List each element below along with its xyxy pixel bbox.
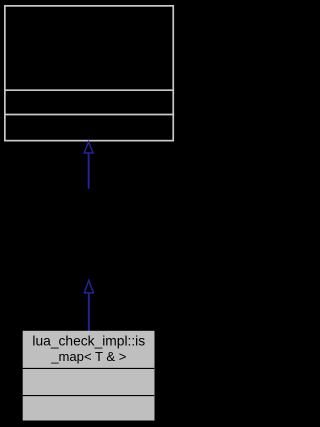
inheritance arrow shaft 2 xyxy=(88,294,90,331)
inheritance arrow head 2 (hollow triangle at intermediate class) xyxy=(84,280,93,293)
svg-text:lua_check_impl::is: lua_check_impl::is xyxy=(32,333,145,348)
inheritance arrow head 1 (hollow triangle at base class) xyxy=(84,142,93,153)
svg-text:_map< T & >: _map< T & > xyxy=(50,349,126,364)
node: derived class box lua_check_impl::is_map< T & > xyxy=(23,331,155,421)
inheritance arrow shaft 1 xyxy=(88,154,90,189)
node: base class box (label not visible) xyxy=(4,6,174,141)
